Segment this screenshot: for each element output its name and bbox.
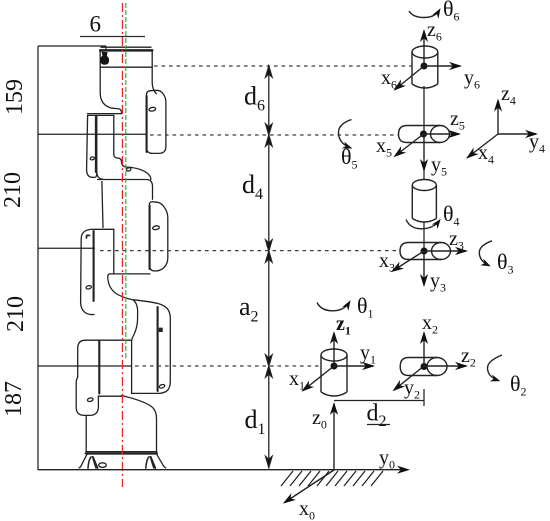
- wrist head box: [100, 50, 152, 67]
- spine line y5 to joint4: [423, 170, 425, 180]
- ground line with y0 axis: [38, 469, 408, 471]
- joint 3 cylinder: [400, 243, 451, 260]
- svg-text:x0: x0: [299, 498, 315, 521]
- elbow panel hole: [152, 225, 159, 230]
- joint 1 cylinder: [321, 349, 347, 396]
- z1 axis: [333, 333, 335, 366]
- spine line joint6 to joint5: [423, 86, 425, 134]
- wrist panel hole: [90, 157, 95, 161]
- forearm panel hole: [149, 107, 156, 112]
- theta2 arc: [487, 355, 502, 381]
- elbow left panel: [81, 229, 95, 314]
- arrows at 135: [266, 124, 272, 135]
- green centerline: [125, 3, 127, 359]
- elbow upper curve: [131, 167, 151, 179]
- svg-text:z4: z4: [501, 83, 516, 108]
- x3 axis: [393, 251, 425, 271]
- base lip: [98, 395, 121, 397]
- elbow left panel thick edge: [93, 231, 95, 301]
- base plate thin line: [86, 451, 157, 453]
- wrist panel thick edge: [95, 117, 97, 172]
- x5 axis: [395, 134, 424, 156]
- svg-text:d4: d4: [242, 170, 263, 203]
- svg-text:y3: y3: [430, 270, 446, 295]
- svg-text:210: 210: [3, 296, 29, 332]
- svg-text:z2: z2: [461, 345, 476, 370]
- head right lower: [152, 67, 156, 94]
- divider line level d1: [38, 365, 132, 367]
- base foot hole: [99, 463, 107, 468]
- x1 axis: [303, 366, 334, 391]
- wrist lip lines: [88, 114, 122, 116]
- svg-text:210: 210: [0, 172, 26, 208]
- svg-text:6: 6: [90, 12, 102, 37]
- y2 axis: [394, 366, 424, 390]
- z4 axis: [497, 101, 499, 135]
- svg-text:y6: y6: [464, 67, 480, 92]
- shoulder left outline: [76, 340, 98, 415]
- robot outline: [76, 47, 170, 468]
- wrist head thin lid: [101, 46, 151, 48]
- shoulder top edge: [85, 339, 132, 341]
- arrows at 251: [266, 240, 272, 251]
- z0 axis: [333, 404, 335, 470]
- wrist panel bottom lip: [97, 172, 103, 179]
- svg-text:a2: a2: [239, 292, 259, 326]
- head taper left: [100, 67, 121, 113]
- frame 4 triad: [468, 101, 537, 158]
- y1 axis: [334, 365, 373, 367]
- svg-text:θ4: θ4: [443, 201, 460, 229]
- theta5 arc: [338, 120, 351, 148]
- joint 4 cylinder: [412, 180, 436, 223]
- upper arm panel hole: [159, 384, 165, 389]
- ground hatching: [281, 471, 383, 486]
- divider line level d3: [38, 247, 95, 249]
- svg-text:x6: x6: [381, 67, 397, 92]
- svg-text:z5: z5: [450, 108, 465, 133]
- y5 axis: [423, 134, 425, 170]
- elbow panel thick edge: [149, 206, 151, 270]
- frame 3 origin dot: [421, 248, 428, 255]
- neck contour: [132, 300, 138, 394]
- z6 axis: [423, 31, 425, 66]
- svg-text:d2: d2: [367, 401, 387, 431]
- base right curve: [121, 396, 156, 452]
- svg-text:θ3: θ3: [497, 249, 514, 277]
- frame top tick: [105, 46, 107, 50]
- upper arm panel square hole: [159, 328, 162, 331]
- z2 axis: [424, 365, 466, 367]
- forearm cover panel: [146, 90, 166, 153]
- d2 underline: [367, 424, 390, 426]
- y4 axis: [498, 133, 536, 135]
- svg-text:θ6: θ6: [443, 0, 460, 24]
- upper arm panel thick edge: [157, 307, 159, 391]
- theta3 arc: [479, 241, 492, 266]
- joint 2 cylinder: [400, 358, 447, 376]
- frame 6 origin dot: [421, 63, 428, 70]
- svg-text:y5: y5: [431, 154, 447, 179]
- svg-text:y0: y0: [379, 447, 395, 472]
- svg-text:θ5: θ5: [341, 144, 358, 172]
- spine line joint4 to joint3: [423, 222, 425, 251]
- x0 axis: [285, 470, 335, 503]
- y6 axis: [424, 65, 460, 67]
- svg-text:187: 187: [1, 381, 27, 417]
- z5 axis: [424, 133, 460, 135]
- svg-text:x1: x1: [289, 368, 305, 393]
- y3 axis: [423, 251, 425, 285]
- theta1 arc: [317, 302, 350, 311]
- arrows at 366: [266, 355, 272, 366]
- central column lines: [113, 115, 115, 154]
- wrist head thick lid: [100, 49, 152, 52]
- x2 axis: [423, 333, 425, 366]
- base left edge: [85, 415, 87, 451]
- dashed axis level 3: [100, 250, 400, 252]
- svg-text:x4: x4: [478, 142, 494, 167]
- arrow up at 66: [266, 66, 272, 77]
- shoulder panel hole: [87, 397, 93, 402]
- elbow left panel mark: [86, 235, 89, 238]
- joint 6 cylinder: [412, 46, 438, 88]
- base flare sides: [79, 454, 166, 467]
- svg-text:x5: x5: [376, 135, 392, 160]
- notch hole: [126, 167, 131, 171]
- frame 2 origin dot: [421, 363, 428, 370]
- frame 5 origin dot: [420, 131, 427, 138]
- shoulder thick edge: [98, 341, 100, 394]
- arrow down at 467.5: [266, 457, 272, 468]
- divider line level d5: [38, 133, 146, 135]
- elbow top edge: [98, 180, 153, 200]
- svg-text:x3: x3: [379, 250, 395, 275]
- svg-text:y4: y4: [529, 131, 545, 156]
- wrist left panel: [87, 115, 97, 177]
- upper arm panel sweep: [132, 300, 171, 394]
- d2 dimension line: [334, 389, 424, 406]
- elbow panel: [149, 202, 167, 271]
- dashed axis level 6: [154, 65, 412, 67]
- S contour: [108, 274, 133, 300]
- svg-text:d1: d1: [245, 405, 266, 438]
- base foot bracket left: [88, 457, 98, 469]
- black glyph on head: [100, 52, 109, 65]
- svg-text:159: 159: [2, 79, 28, 115]
- link2 inner edge: [113, 229, 115, 273]
- joint 5 cylinder: [399, 126, 450, 143]
- dashed axis level 2: [135, 365, 320, 367]
- svg-text:z3: z3: [449, 228, 464, 253]
- elbow left panel hole: [86, 285, 92, 289]
- svg-text:θ1: θ1: [357, 293, 374, 321]
- dimension 6 line: [80, 36, 145, 38]
- svg-text:y2: y2: [404, 377, 420, 402]
- elbow left edge: [102, 182, 103, 228]
- frame 1 origin dot: [331, 363, 338, 370]
- z3 axis: [424, 250, 466, 252]
- base foot bracket right: [146, 457, 156, 469]
- x6 axis: [395, 66, 424, 90]
- theta6 arc: [409, 10, 440, 18]
- svg-text:z1: z1: [336, 313, 351, 338]
- elbow lip: [95, 228, 114, 230]
- theta4 arc: [406, 220, 440, 229]
- svg-text:z6: z6: [427, 19, 442, 44]
- frame left border: [37, 46, 39, 470]
- central step notch: [114, 155, 131, 168]
- elbow bottom edge: [110, 273, 150, 275]
- x4 axis: [468, 134, 499, 158]
- svg-text:y1: y1: [360, 342, 376, 367]
- svg-text:θ2: θ2: [510, 371, 527, 399]
- dim line vertical: [268, 66, 270, 468]
- svg-text:z0: z0: [312, 407, 327, 432]
- red centerline: [121, 3, 123, 487]
- forearm panel thick edge: [146, 96, 148, 152]
- frame top line: [38, 45, 106, 47]
- dashed axis level 5: [150, 134, 398, 136]
- svg-text:d6: d6: [244, 82, 265, 115]
- base plate thick line: [86, 452, 157, 454]
- svg-text:x2: x2: [422, 312, 438, 337]
